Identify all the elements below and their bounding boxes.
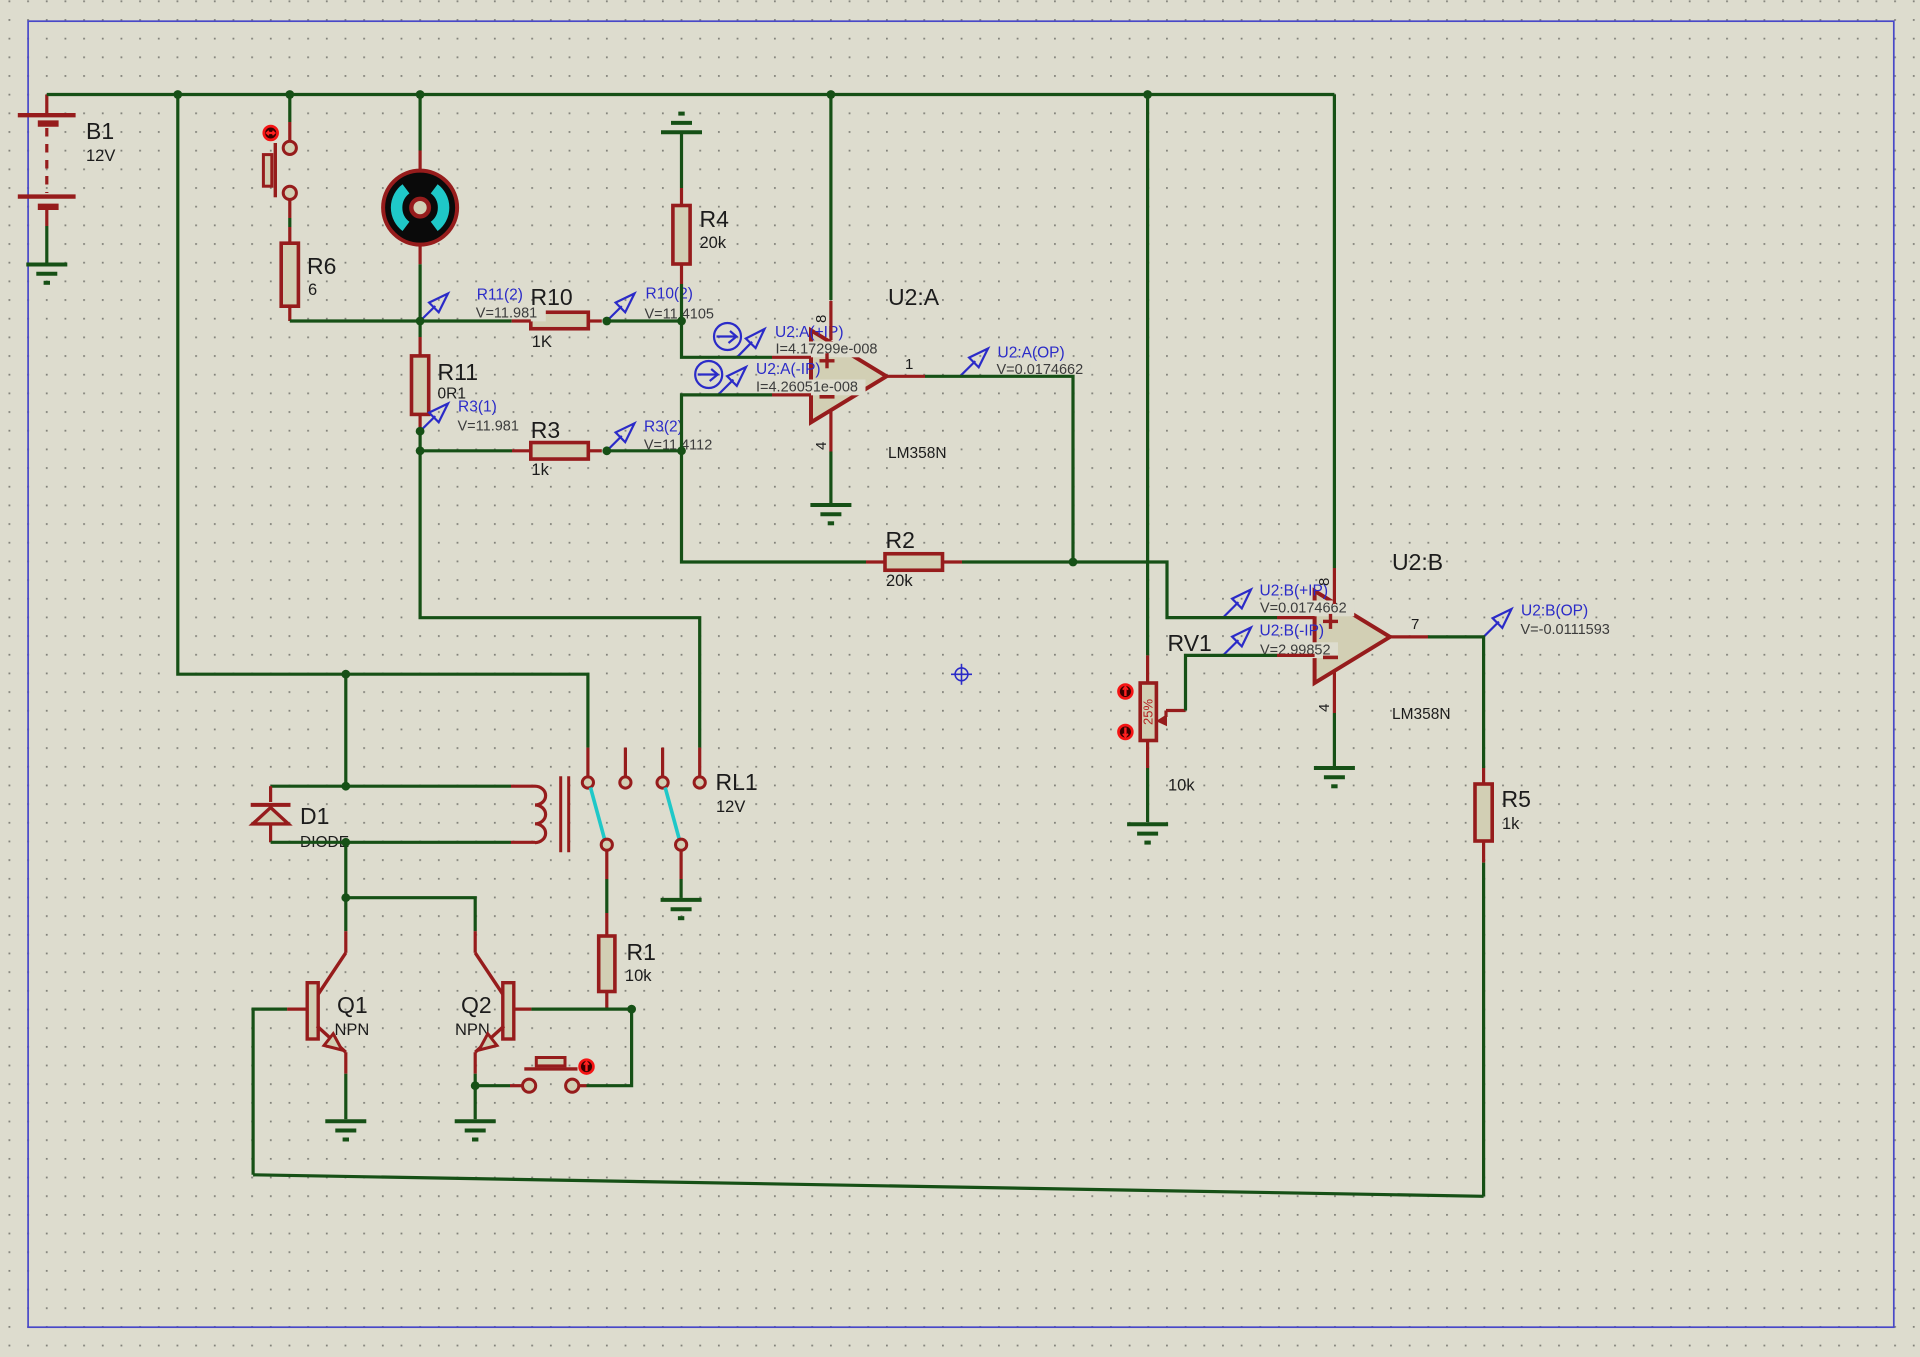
node junction R11 bottom bbox=[416, 427, 425, 436]
svg-text:I=4.26051e-008: I=4.26051e-008 bbox=[756, 380, 858, 396]
value probe R3(1) bbox=[456, 419, 528, 435]
value probe U2:A(OP) bbox=[995, 362, 1091, 378]
svg-text:Q2: Q2 bbox=[461, 992, 492, 1018]
node junction top rail / motor column bbox=[416, 90, 425, 99]
wire relay pole1 feed bbox=[346, 674, 588, 747]
label R6 value bbox=[307, 253, 336, 299]
node junction top rail / RV1 column bbox=[1143, 90, 1152, 99]
wire R4 bottom bbox=[680, 264, 683, 321]
svg-text:U2:A: U2:A bbox=[888, 284, 940, 310]
svg-text:R3(2): R3(2) bbox=[644, 419, 683, 436]
wire U2:A output bbox=[925, 376, 1073, 562]
wire R5 bottom long bbox=[1482, 863, 1485, 1197]
label Q2 value bbox=[455, 992, 492, 1039]
wire top power rail bbox=[47, 93, 1335, 96]
svg-text:U2:B(OP): U2:B(OP) bbox=[1521, 603, 1588, 620]
label Q1 value bbox=[335, 992, 370, 1039]
wire collector feed row bbox=[344, 842, 347, 897]
pin 4 U2:B bbox=[1333, 671, 1336, 766]
voltage probe U2:B(-IP) bbox=[1223, 628, 1251, 656]
wire U2:B output bbox=[1428, 637, 1484, 768]
resistor R3 body bbox=[531, 443, 589, 460]
pin 4 label U2:B bbox=[1316, 704, 1333, 712]
node junction U2:A out / R2 wire bbox=[1069, 558, 1078, 567]
relay RL1 pole1 top contact bbox=[582, 748, 593, 789]
node junction collector feed bbox=[341, 893, 350, 902]
label probe U2:A(OP) bbox=[998, 345, 1065, 362]
svg-text:V=11.981: V=11.981 bbox=[458, 419, 519, 435]
node junction coil top row bbox=[341, 782, 350, 791]
svg-text:LM358N: LM358N bbox=[1392, 706, 1451, 723]
svg-text:R11(2): R11(2) bbox=[477, 287, 523, 304]
output pin 7 U2:B bbox=[1390, 616, 1428, 637]
wire R2 feed riser bbox=[682, 451, 867, 562]
node junction top rail / button column bbox=[285, 90, 294, 99]
push button SW1 (vertical) bbox=[263, 95, 296, 200]
wire Q2 base row bbox=[531, 1007, 631, 1010]
label D1 value bbox=[300, 803, 349, 851]
label probe R3(2) bbox=[644, 419, 683, 436]
svg-text:R1: R1 bbox=[627, 939, 656, 965]
svg-text:U2:A(+IP): U2:A(+IP) bbox=[775, 324, 843, 341]
label U2:A bbox=[888, 284, 940, 310]
current probe U2:A(-IP) bbox=[695, 361, 746, 395]
label RL1 value bbox=[716, 769, 758, 816]
svg-text:D1: D1 bbox=[300, 803, 329, 829]
wire Q2 collector feed bbox=[346, 898, 475, 932]
resistor R5 body bbox=[1475, 784, 1492, 841]
svg-text:10k: 10k bbox=[1168, 777, 1195, 795]
relay RL1 blade 1 bbox=[591, 788, 605, 840]
transistor Q1 bbox=[287, 931, 346, 1119]
svg-text:8: 8 bbox=[813, 315, 830, 323]
label probe U2:B(-IP) bbox=[1260, 623, 1325, 640]
resistor R11 pins bbox=[419, 321, 422, 427]
actuator icon push button SW1 bbox=[264, 126, 278, 140]
node junction top rail / left feed bbox=[173, 90, 182, 99]
value probe R3(2) bbox=[642, 437, 722, 453]
relay RL1 pole2 lower contact bbox=[676, 839, 687, 898]
label probe U2:B(OP) bbox=[1521, 603, 1588, 620]
label RV1 bbox=[1168, 630, 1212, 656]
relay RL1 pole1 lower contact bbox=[601, 839, 612, 936]
ground below relay pole2 bbox=[661, 900, 702, 918]
value probe U2:B(OP) bbox=[1519, 622, 1620, 638]
wire +IP riser U2:A bbox=[682, 321, 773, 357]
resistor R6 bbox=[281, 243, 298, 306]
minus marker U2:A bbox=[820, 395, 835, 399]
relay RL1 coil bbox=[511, 776, 569, 852]
label probe R11(2) bbox=[477, 287, 523, 304]
minus marker U2:B bbox=[1323, 656, 1338, 660]
relay RL1 spare contact a bbox=[620, 748, 631, 789]
svg-text:V=-0.0111593: V=-0.0111593 bbox=[1521, 622, 1610, 638]
svg-text:4: 4 bbox=[813, 442, 830, 450]
ground below Q1 bbox=[325, 1121, 366, 1139]
svg-text:R3(1): R3(1) bbox=[458, 399, 497, 416]
potentiometer RV1 body bbox=[1140, 683, 1156, 741]
voltage probe R11(2) bbox=[420, 294, 448, 322]
svg-text:1: 1 bbox=[905, 356, 913, 373]
node junction top rail / U2:A pin8 column bbox=[827, 90, 836, 99]
svg-text:RV1: RV1 bbox=[1168, 630, 1212, 656]
label 25% RV1 bbox=[1141, 699, 1156, 725]
ground below U2:A bbox=[810, 505, 851, 523]
wire RV1 wiper to U2:B -IP bbox=[1186, 655, 1278, 710]
ground below U2:B bbox=[1314, 768, 1355, 786]
wire coil bottom row bbox=[271, 841, 511, 844]
node junction R3 row left bbox=[416, 446, 425, 455]
svg-text:RL1: RL1 bbox=[716, 769, 758, 795]
wire bottom feedback bbox=[253, 1175, 1484, 1197]
wire battery to ground bbox=[45, 226, 48, 263]
svg-text:R2: R2 bbox=[886, 527, 915, 553]
resistor R4 bbox=[673, 206, 690, 265]
value probe R11(2) bbox=[474, 306, 546, 322]
svg-text:R11: R11 bbox=[438, 359, 479, 385]
op-amp U2:B body bbox=[1315, 591, 1390, 683]
transistor Q2 bbox=[475, 931, 531, 1085]
voltage probe U2:B(+IP) bbox=[1223, 590, 1251, 618]
resistor R3 pins bbox=[420, 449, 602, 452]
value probe U2:A(+IP) bbox=[774, 342, 885, 358]
svg-text:NPN: NPN bbox=[335, 1021, 370, 1039]
wire left feed column bbox=[178, 95, 346, 675]
resistor R11 body bbox=[412, 356, 429, 415]
svg-text:R10(2): R10(2) bbox=[646, 286, 693, 303]
up icon RV1 bbox=[1119, 685, 1133, 699]
wire -IP riser U2:A bbox=[682, 395, 773, 451]
svg-text:NPN: NPN bbox=[455, 1021, 490, 1039]
svg-text:20k: 20k bbox=[886, 572, 913, 590]
svg-text:1k: 1k bbox=[1502, 815, 1520, 833]
ground below Q2 bbox=[455, 1121, 496, 1139]
wire R11 to R3 row bbox=[419, 431, 422, 451]
svg-text:6: 6 bbox=[308, 281, 317, 299]
pin 8 label U2:A bbox=[813, 315, 830, 323]
svg-text:U2:A(OP): U2:A(OP) bbox=[998, 345, 1065, 362]
pin 8 U2:B bbox=[1333, 95, 1336, 605]
wiper RV1 bbox=[1157, 711, 1186, 726]
wire R10 to R4 node bbox=[607, 319, 682, 322]
voltage probe U2:A(OP) bbox=[960, 349, 988, 377]
relay RL1 spare contact b bbox=[657, 748, 668, 789]
battery B1 bbox=[18, 95, 76, 227]
wire R3 to -IP riser bbox=[607, 449, 682, 452]
svg-text:R3: R3 bbox=[531, 417, 560, 443]
plus marker U2:A bbox=[820, 353, 835, 368]
node junction left feed / coil top bbox=[341, 670, 350, 679]
wire button to R6 bbox=[288, 200, 291, 244]
motor M1 (buzzer) bbox=[383, 95, 457, 322]
label U2:B bbox=[1392, 549, 1443, 575]
output pin 1 U2:A bbox=[887, 356, 926, 376]
svg-text:U2:A(-IP): U2:A(-IP) bbox=[756, 361, 821, 378]
svg-text:12V: 12V bbox=[716, 798, 745, 816]
svg-text:1k: 1k bbox=[531, 461, 549, 479]
svg-text:R5: R5 bbox=[1502, 786, 1531, 812]
pin 8 label U2:B bbox=[1316, 578, 1333, 586]
node junction -IP riser / R2 feed bbox=[677, 446, 686, 455]
svg-text:R4: R4 bbox=[700, 206, 730, 232]
node junction R10 output bbox=[602, 317, 611, 326]
label R1 value bbox=[625, 939, 656, 985]
wire R1 bottom pin bbox=[605, 992, 608, 1010]
node junction R4 / +IP riser bbox=[677, 317, 686, 326]
label probe R3(1) bbox=[458, 399, 497, 416]
svg-text:R6: R6 bbox=[307, 253, 336, 279]
wire ground flag to R4 bbox=[680, 132, 683, 205]
svg-text:4: 4 bbox=[1316, 704, 1333, 712]
value probe U2:B(-IP) bbox=[1259, 642, 1339, 658]
label R2 value bbox=[886, 527, 915, 590]
wire R6 bottom to row bbox=[288, 306, 291, 321]
node junction coil bottom row bbox=[341, 838, 350, 847]
pin 4 U2:A bbox=[829, 410, 832, 503]
label probe U2:A(+IP) bbox=[775, 324, 843, 341]
wire R6/motor row to R10 bbox=[290, 319, 512, 322]
wire Q2 emitter to ground bbox=[474, 1086, 477, 1120]
node junction R3 output bbox=[602, 446, 611, 455]
label R5 value bbox=[1502, 786, 1531, 833]
label LM358N U2:B bbox=[1392, 706, 1451, 723]
wire rail to RV1 bbox=[1146, 95, 1149, 656]
op-amp U2:A body bbox=[811, 330, 887, 422]
resistor R10 body bbox=[531, 312, 589, 329]
resistor R2 body bbox=[885, 554, 943, 571]
wire Q1 collector feed bbox=[344, 898, 347, 932]
resistor R2 pins bbox=[866, 560, 962, 563]
ground below battery B1 bbox=[26, 265, 67, 283]
svg-text:LM358N: LM358N bbox=[888, 445, 947, 462]
pin stub +IP U2:B bbox=[1277, 616, 1315, 619]
actuator icon push button SW2 bbox=[580, 1060, 594, 1074]
ground flag above R4 bbox=[661, 114, 702, 133]
push button SW2 (horizontal) bbox=[475, 1058, 586, 1093]
label LM358N U2:A bbox=[888, 445, 947, 462]
voltage probe R10(2) bbox=[607, 294, 635, 322]
svg-text:U2:B: U2:B bbox=[1392, 549, 1443, 575]
label B1 value bbox=[86, 118, 115, 165]
label R11 value bbox=[438, 359, 479, 403]
ground below RV1 bbox=[1127, 824, 1168, 842]
voltage probe R3(2) bbox=[607, 423, 635, 451]
current probe U2:A(+IP) bbox=[714, 323, 765, 357]
wire coil top riser bbox=[344, 674, 347, 786]
potentiometer RV1 pins bbox=[1146, 655, 1149, 822]
value probe U2:B(+IP) bbox=[1259, 601, 1355, 617]
label probe R10(2) bbox=[646, 286, 693, 303]
resistor R10 pins bbox=[512, 319, 602, 322]
svg-text:8: 8 bbox=[1316, 578, 1333, 586]
node junction motor/R11/R10 row bbox=[416, 317, 425, 326]
svg-text:10k: 10k bbox=[625, 967, 652, 985]
pin 4 label U2:A bbox=[813, 442, 830, 450]
svg-text:12V: 12V bbox=[86, 147, 115, 165]
label probe U2:A(-IP) bbox=[756, 361, 821, 378]
wire coil top row bbox=[271, 785, 511, 788]
svg-text:20k: 20k bbox=[700, 234, 727, 252]
label R3 value bbox=[531, 417, 560, 479]
wire relay pole2 feed bbox=[420, 451, 700, 748]
label R4 value bbox=[700, 206, 730, 252]
svg-text:Q1: Q1 bbox=[337, 992, 368, 1018]
wire button riser bbox=[587, 1009, 632, 1086]
value probe R10(2) bbox=[643, 306, 723, 322]
wire R2 to U2:B +IP bbox=[962, 562, 1277, 618]
pin stub -IP U2:A bbox=[772, 393, 811, 396]
voltage probe U2:B(OP) bbox=[1484, 609, 1512, 637]
label probe U2:B(+IP) bbox=[1260, 583, 1328, 600]
value probe U2:A(-IP) bbox=[755, 380, 866, 396]
wire feedback riser bbox=[253, 1009, 287, 1175]
diode D1 bbox=[251, 786, 291, 842]
pin stub +IP U2:A bbox=[772, 356, 811, 359]
svg-text:B1: B1 bbox=[86, 118, 114, 144]
relay RL1 pole2 top contact bbox=[694, 748, 705, 789]
label RV1 value bbox=[1168, 777, 1195, 795]
pin stub -IP U2:B bbox=[1277, 654, 1315, 657]
relay RL1 blade 2 bbox=[665, 788, 679, 840]
label R10 value bbox=[531, 284, 573, 351]
origin crosshair marker bbox=[951, 664, 972, 685]
pin 8 U2:A bbox=[829, 95, 832, 341]
down icon RV1 bbox=[1119, 725, 1133, 739]
resistor R1 bbox=[599, 936, 615, 992]
svg-text:U2:B(-IP): U2:B(-IP) bbox=[1260, 623, 1325, 640]
svg-text:1K: 1K bbox=[532, 333, 552, 351]
svg-text:7: 7 bbox=[1411, 616, 1419, 633]
node junction base/button riser bbox=[627, 1005, 636, 1014]
svg-text:V=11.981: V=11.981 bbox=[476, 306, 537, 322]
resistor R5 pins bbox=[1482, 768, 1485, 863]
voltage probe R3(1) bbox=[420, 404, 448, 432]
svg-text:25%: 25% bbox=[1141, 699, 1156, 725]
node junction Q2 emitter / button bbox=[471, 1081, 480, 1090]
plus marker U2:B bbox=[1323, 614, 1338, 629]
